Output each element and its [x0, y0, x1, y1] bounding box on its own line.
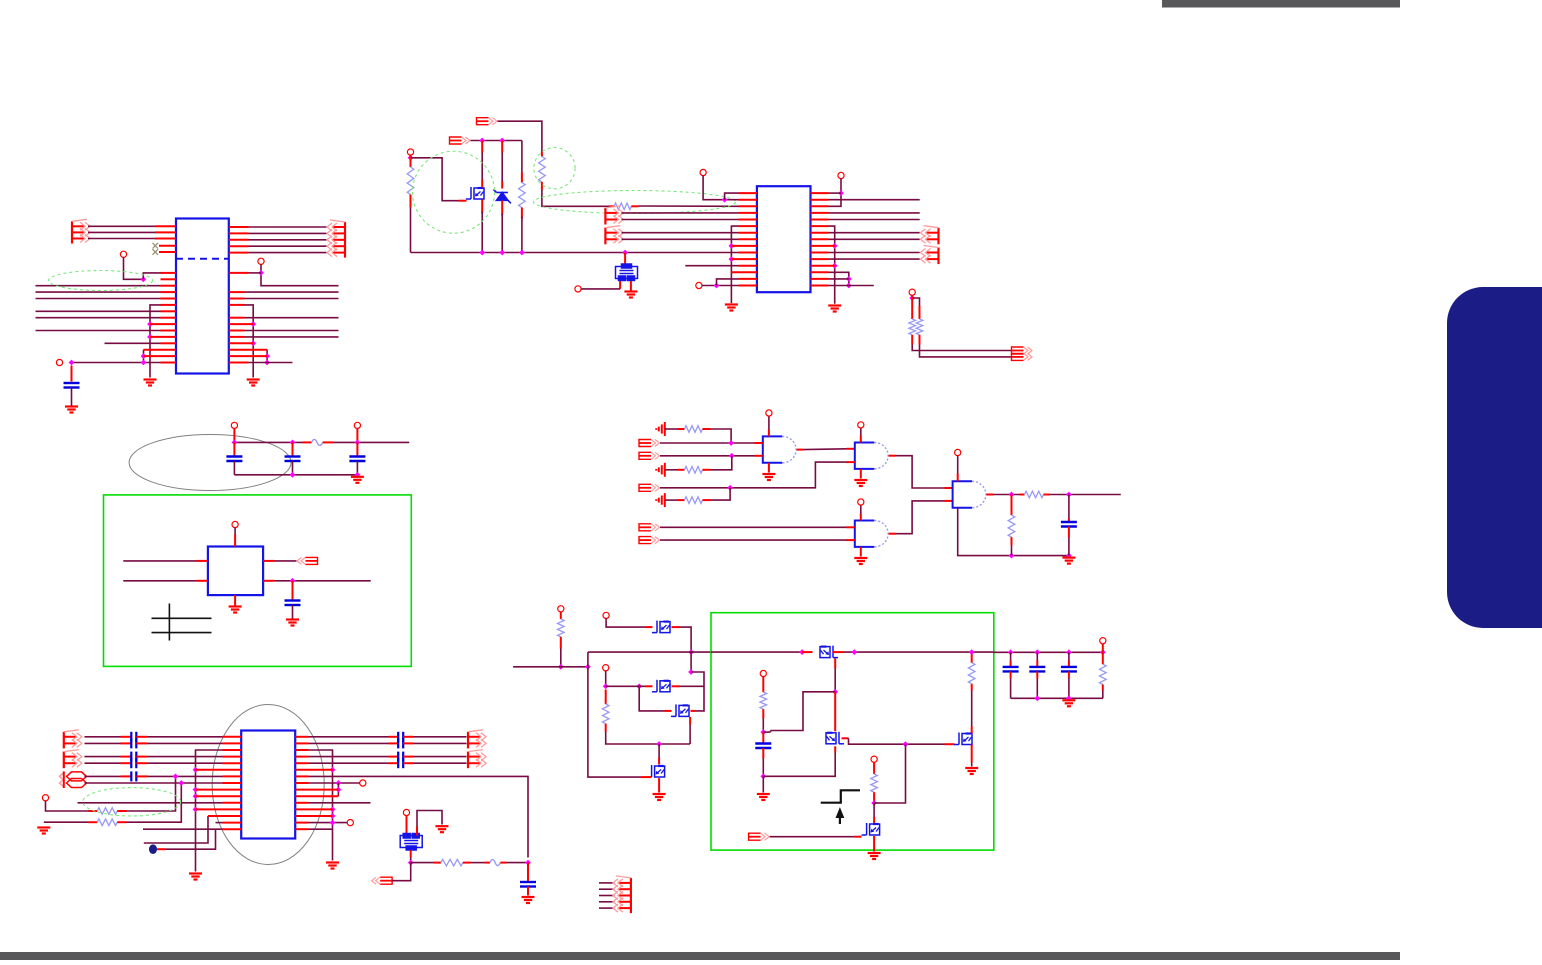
pin 1 U1: [155, 225, 176, 227]
ground: [65, 407, 78, 413]
capacitor series lead2: [403, 756, 413, 758]
junction: [728, 440, 734, 446]
resistor R20 lead2: [1102, 685, 1104, 691]
resistor R7 lead: [678, 428, 685, 430]
junction: [903, 741, 909, 747]
wire q4 gate drop: [639, 686, 664, 711]
pin 1 U2: [739, 192, 757, 194]
wire jog 13: [144, 816, 208, 843]
wire diff r: [309, 762, 389, 764]
pin out U4B: [889, 455, 896, 457]
capacitor series lead2: [403, 742, 413, 744]
resistor R4: [614, 203, 631, 210]
pin VCC U4A: [766, 410, 772, 416]
wire right net: [245, 298, 339, 300]
pin VDD U2: [838, 172, 844, 178]
wire k17: [770, 836, 855, 838]
wire u2 vdd right: [829, 179, 842, 207]
junction: [851, 649, 857, 655]
pin U1 right: [229, 342, 253, 344]
junction: [799, 649, 805, 655]
wire to connector: [249, 252, 327, 254]
test point dot: [149, 844, 157, 854]
junction: [1034, 649, 1040, 655]
pin r15 U2: [811, 285, 829, 287]
wire diff2: [148, 742, 223, 744]
wire diff2: [148, 762, 223, 764]
wire x1 left: [582, 288, 621, 290]
pin U2 right: [811, 238, 829, 240]
pin P1: [407, 149, 413, 155]
pin U1 r1: [229, 272, 249, 274]
junction: [330, 807, 336, 813]
junction: [585, 664, 591, 670]
connector K16: [613, 876, 631, 913]
junction: [479, 138, 485, 144]
junction: [336, 780, 342, 786]
resistor R11 lead: [1011, 495, 1013, 516]
wire u5 r11: [309, 802, 371, 804]
pin U3 out2: [263, 580, 274, 582]
pin U2: [739, 219, 757, 221]
wire cap bottom: [1036, 679, 1038, 699]
wire U1 left pin 2: [88, 231, 155, 233]
junction: [147, 321, 153, 327]
pin U1: [150, 323, 176, 325]
wire q7 out: [849, 738, 945, 744]
ferrite bead FB1 lead: [303, 441, 312, 443]
capacitor C6 lead2: [1068, 527, 1070, 538]
pin U2 right: [811, 265, 835, 267]
pin U5: [196, 808, 242, 810]
pin 14 U2: [739, 278, 757, 280]
wire k15: [392, 863, 411, 881]
wire row15: [143, 828, 223, 830]
transistor Q7 source lead: [834, 746, 836, 752]
wire r20 down: [1102, 691, 1104, 699]
wire u2 l15: [702, 285, 739, 287]
pin U3 bottom: [234, 595, 236, 605]
junction: [330, 820, 336, 826]
inductor L1 lead2: [500, 862, 506, 864]
pin U2 right: [811, 232, 829, 234]
wire bus stub: [599, 882, 615, 884]
IC U3: [208, 547, 263, 596]
wire jog V4: [266, 350, 268, 363]
zener diode D1: [494, 190, 511, 204]
capacitor series lead: [121, 762, 132, 764]
junction: [264, 353, 270, 359]
junction: [173, 774, 179, 780]
capacitor lead: [1010, 661, 1012, 667]
connector pair right: [468, 730, 486, 749]
junction: [408, 155, 414, 161]
wire u3 in2: [123, 580, 196, 582]
wire gnd bus left: [150, 305, 163, 378]
capacitor series lead2: [136, 736, 147, 738]
pin U1 right: [229, 291, 245, 293]
wire p10: [309, 822, 348, 824]
pin U5 right: [295, 808, 332, 810]
ground: [757, 794, 770, 800]
AND gate U4C: [855, 521, 888, 547]
wire r15 down: [560, 649, 562, 667]
pin 2 U1: [161, 278, 177, 280]
zener diode D1 lead2: [501, 201, 503, 216]
connector K3: [605, 206, 623, 225]
junction: [1066, 695, 1072, 701]
net connector K15: [372, 877, 393, 884]
resistor R7 lead2: [703, 428, 711, 430]
wire r4 to U2: [639, 205, 739, 207]
junction: [1009, 492, 1015, 498]
capacitor series lead2: [136, 775, 147, 777]
net connector K14: [639, 537, 660, 544]
resistor R12 lead: [89, 810, 98, 812]
junction: [141, 360, 147, 366]
capacitor series lead: [121, 736, 132, 738]
wire u2 right net: [829, 212, 920, 214]
junction: [519, 250, 525, 256]
ground: [854, 558, 867, 564]
wire bus stub: [599, 888, 615, 890]
wire x2 r: [417, 811, 442, 827]
pin 14 U1: [144, 355, 177, 357]
pin left: [56, 359, 62, 365]
wire c5 gnd: [292, 605, 294, 620]
wire r3 down: [542, 190, 610, 207]
wire net671: [691, 672, 704, 711]
wire cap gnd: [233, 461, 235, 475]
wire row5: [660, 462, 847, 488]
wire u5 r15: [309, 828, 333, 830]
transistor Q9 source lead: [873, 836, 875, 852]
pin U5 r3: [295, 749, 308, 751]
wire right 15: [249, 362, 293, 364]
wire u2 r13: [829, 272, 849, 285]
wire k1: [498, 121, 542, 151]
junction: [603, 683, 609, 689]
pin U2 right: [811, 245, 835, 247]
wire q5 feed: [658, 744, 660, 758]
pin P7: [354, 422, 360, 428]
wire u3 out1: [275, 560, 297, 562]
junction: [479, 250, 485, 256]
wire r2 down: [521, 217, 523, 253]
junction: [290, 440, 296, 446]
capacitor series lead: [389, 756, 399, 758]
AND gate U4B: [855, 443, 888, 469]
pin U1: [150, 336, 176, 338]
pin U1 right 15: [229, 362, 249, 364]
wire q8 gnd: [971, 763, 973, 767]
inductor L1: [490, 860, 500, 866]
wire q1 drain: [481, 153, 483, 180]
transistor Q8: [954, 733, 972, 745]
junction: [178, 780, 184, 786]
wire r11 down: [1011, 546, 1013, 556]
ground: [37, 828, 50, 834]
net connector K11: [639, 452, 660, 459]
junction: [355, 472, 361, 478]
resistor R15 lead2: [560, 637, 562, 649]
wire u5 gnd bus: [196, 750, 223, 872]
junction: [846, 276, 852, 282]
net connector K12: [639, 484, 660, 491]
pin U5 14: [223, 822, 242, 824]
AND gate U4A: [763, 436, 796, 462]
wire c6 top: [1068, 495, 1070, 519]
resistor R3: [539, 157, 546, 182]
pin U4D vcc: [957, 474, 959, 482]
pin U5 r7: [295, 775, 308, 777]
transistor Q7 out lead: [842, 737, 849, 739]
resistor R16 lead: [605, 690, 607, 705]
wire diff r: [309, 742, 389, 744]
wire diff r2: [414, 742, 467, 744]
wire cap top: [1036, 652, 1038, 660]
wire diff2: [148, 756, 223, 758]
pin U4A gnd: [768, 463, 770, 473]
pin P10: [347, 820, 353, 826]
pin U2: [731, 245, 757, 247]
pin VDD U1: [258, 258, 264, 264]
pin U5 right: [295, 742, 308, 744]
resistor R18 lead2b: [971, 684, 973, 691]
wire k2: [471, 140, 522, 142]
pin 2 U1: [155, 231, 176, 233]
resistor R10 lead: [1020, 494, 1025, 496]
wire vcc row2: [334, 441, 410, 443]
resistor R14: [441, 859, 463, 866]
ground: [286, 620, 299, 626]
pin U5 r8: [295, 782, 308, 784]
junction: [760, 773, 766, 779]
wire vout: [994, 651, 1103, 653]
connector J1: [72, 219, 90, 243]
pin 13 U2: [731, 271, 757, 273]
wire diff: [85, 736, 121, 738]
crystal X1: [616, 264, 638, 281]
pin U1: [161, 330, 177, 332]
net connector K10: [639, 440, 660, 447]
side tab: [1447, 287, 1542, 628]
resistor R6: [916, 319, 923, 335]
junction: [141, 353, 147, 359]
zener diode D1 lead: [501, 141, 503, 153]
resistor R9: [685, 497, 703, 504]
wire bus net: [36, 291, 161, 293]
pin 1 U1: [161, 272, 177, 274]
pin nc0 U1: [159, 245, 176, 247]
wire c8 down: [762, 759, 764, 777]
pin U2: [731, 258, 757, 260]
power symbol: [656, 493, 665, 507]
resistor R8 lead2: [703, 469, 711, 471]
capacitor series: [131, 752, 136, 762]
pin 2 U2: [739, 199, 757, 201]
crystal X2 lead b: [410, 850, 412, 857]
transistor Q3 out lead: [672, 685, 680, 687]
resistor R13 lead2: [117, 821, 126, 823]
wire right net: [245, 336, 339, 338]
capacitor C6: [1061, 522, 1077, 527]
resistor R14 lead2: [463, 862, 471, 864]
capacitor lead2: [1068, 671, 1070, 678]
capacitor series lead: [121, 775, 132, 777]
capacitor lead2: [1010, 671, 1012, 678]
wire u4b vcc: [860, 428, 862, 436]
pin VCC U4D: [955, 449, 961, 455]
pin U1: [161, 298, 177, 300]
resistor R5: [909, 319, 916, 335]
wire r5 out: [912, 345, 1011, 351]
pin P14: [603, 665, 609, 671]
capacitor bank at 1068.4: [1061, 667, 1077, 672]
junction: [688, 649, 694, 655]
highlight ellipse: [83, 788, 181, 816]
connector K5: [921, 226, 939, 245]
capacitor C5: [285, 601, 301, 606]
pin U2: [739, 232, 757, 234]
junction: [656, 741, 662, 747]
pin U5 3: [223, 749, 242, 751]
IC U1 section divider: [176, 258, 229, 260]
junction: [722, 197, 728, 203]
pin nc1 U1: [159, 251, 176, 253]
wire gnd row: [234, 474, 357, 476]
wire cap gnd: [356, 461, 358, 475]
pin U5 right: [295, 762, 308, 764]
wire row1b: [711, 429, 732, 443]
wire right net: [245, 291, 339, 293]
wire jog V2: [143, 350, 145, 363]
wire bus stub: [599, 901, 615, 903]
pin P17: [1100, 638, 1106, 644]
wire right net: [245, 317, 339, 319]
wire u5 r7 long: [309, 776, 529, 857]
capacitor series lead: [121, 742, 132, 744]
crystal X2 lead: [406, 816, 408, 836]
wire r13 up: [127, 783, 182, 822]
junction: [871, 800, 877, 806]
wire sense2: [874, 802, 880, 804]
resistor R2 lead top: [521, 173, 523, 183]
wire q6 gate net: [834, 669, 836, 692]
wire r6 out: [920, 345, 1012, 357]
wire bus net: [36, 298, 161, 300]
wire u2 r15: [829, 285, 874, 287]
transistor Q3 gate lead: [646, 685, 653, 687]
highlight ellipse gray: [212, 705, 324, 865]
pin 12 U2: [739, 265, 757, 267]
wire in2 u4a: [660, 455, 755, 457]
wire to connector: [249, 232, 327, 234]
wire u4c out: [896, 501, 945, 534]
capacitor series: [131, 738, 136, 748]
pin U1 right 14: [229, 355, 267, 357]
capacitor series: [131, 771, 136, 781]
resistor R11 lead2: [1011, 537, 1013, 545]
wire bus stub: [599, 907, 615, 909]
pin P5: [909, 289, 915, 295]
pin U5: [223, 762, 242, 764]
wire cap top: [1010, 652, 1012, 660]
pin U5: [223, 736, 242, 738]
capacitor series: [398, 738, 403, 748]
ground: [854, 480, 867, 486]
ground: [1062, 558, 1075, 564]
resistor R16: [602, 704, 609, 724]
resistor R10 lead2: [1044, 494, 1050, 496]
pin U4A vcc: [768, 430, 770, 437]
resistor R1 lead: [410, 155, 412, 167]
pin in2 U4B: [847, 461, 855, 463]
pin U5 11: [223, 802, 242, 804]
wire q1 source: [481, 212, 483, 253]
junction: [558, 664, 564, 670]
junction: [846, 283, 852, 289]
pin in1 U4D: [945, 487, 953, 489]
transistor Q1 drain lead: [481, 141, 483, 153]
capacitor series: [398, 752, 403, 762]
capacitor C8 lead2: [762, 748, 764, 759]
wire u2 gnd bus: [731, 226, 738, 303]
capacitor series: [131, 732, 136, 742]
junction: [69, 360, 75, 366]
pin VCC U4C: [858, 499, 864, 505]
wire u2 right net: [829, 219, 920, 221]
ground: [868, 853, 881, 859]
wire to K6: [829, 258, 920, 260]
transistor Q4 source lead: [689, 717, 691, 725]
wire vcc jog2: [143, 273, 162, 279]
wire stub: [105, 342, 161, 344]
wire p8: [46, 801, 89, 811]
resistor R10: [1025, 491, 1044, 498]
wire bottom net: [72, 362, 161, 364]
wire u2 jog l14: [717, 279, 739, 286]
net connector K2: [450, 137, 471, 144]
lead p17: [1102, 644, 1104, 653]
pin U5 right: [295, 736, 308, 738]
wire diff r2: [414, 736, 467, 738]
wire p13: [606, 618, 645, 627]
pin U2: [739, 212, 757, 214]
connector J2: [327, 220, 345, 258]
junction: [290, 472, 296, 478]
junction: [760, 729, 766, 735]
pin in2 U4A: [755, 455, 763, 457]
crystal X1 lead right: [630, 281, 632, 291]
transistor Q9: [862, 823, 880, 835]
transistor Q2 out lead: [672, 626, 680, 628]
junction: [140, 276, 146, 282]
wire u2 gnd bus r: [829, 226, 835, 304]
ground: [189, 874, 202, 880]
ground: [965, 768, 978, 774]
wire U1 left pin 3: [88, 238, 155, 240]
junction: [232, 440, 238, 446]
resistor R9 lead: [678, 499, 685, 501]
pin out U4D: [986, 494, 993, 496]
pin r4 U1: [229, 252, 249, 254]
transistor Q8 drain lead: [971, 727, 973, 734]
pin U2: [739, 238, 757, 240]
ground: [351, 477, 364, 483]
transistor Q6 left lead: [802, 651, 812, 653]
pin P13: [603, 612, 609, 618]
